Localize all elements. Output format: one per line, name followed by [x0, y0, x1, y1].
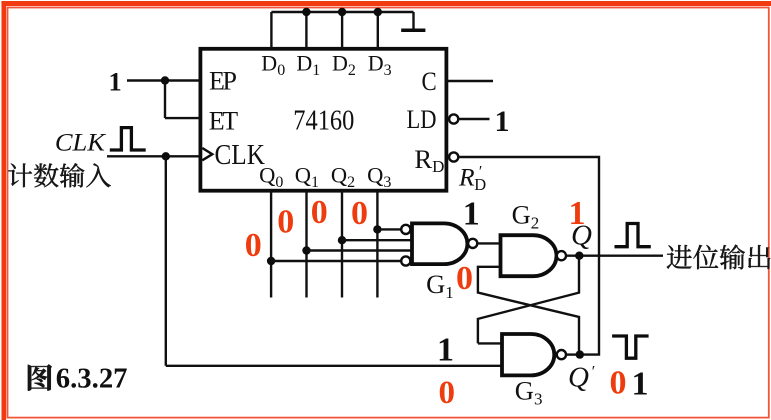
wire RD to Q' node	[459, 157, 600, 355]
junction Q node	[575, 252, 583, 260]
svg-text:0: 0	[245, 227, 262, 264]
svg-text:1: 1	[437, 332, 454, 369]
label 计数输入 (count input)	[8, 164, 32, 188]
junction Q2	[338, 236, 346, 244]
wire G3 out	[566, 353, 580, 355]
wire Q0 to G1	[271, 260, 401, 262]
junction D1	[302, 8, 310, 16]
junction Q3	[373, 225, 381, 233]
svg-text:1: 1	[495, 105, 510, 138]
svg-text:0: 0	[456, 260, 473, 297]
wire LD	[459, 118, 490, 120]
svg-text:0: 0	[351, 195, 368, 232]
wire Q1	[305, 191, 307, 298]
74160 counter U1	[200, 49, 446, 191]
input bubble G1 bottom	[401, 256, 410, 265]
svg-text:′: ′	[592, 363, 596, 380]
NAND gate G1	[412, 223, 467, 264]
svg-text:CLK: CLK	[215, 139, 265, 171]
wire 1 to EP	[127, 79, 200, 81]
label 进位输出 (carry output)	[667, 245, 692, 269]
svg-text:EP: EP	[209, 67, 237, 96]
negative pulse symbol at Q'	[612, 336, 649, 358]
bubble RD	[449, 152, 458, 161]
junction Q0	[267, 257, 275, 265]
wire Q3	[376, 191, 378, 298]
wire D bus	[271, 11, 413, 13]
junction Q' node	[576, 350, 584, 358]
wire D1	[305, 12, 307, 49]
input bubble G1 top	[401, 225, 410, 234]
svg-text:D: D	[474, 175, 486, 194]
bubble LD	[449, 114, 458, 123]
svg-text:0: 0	[610, 365, 627, 402]
wire G2 input cross-couple to Q'	[478, 267, 579, 355]
svg-text:1: 1	[463, 196, 480, 233]
svg-text:Q: Q	[571, 219, 592, 251]
svg-text:6.3.27: 6.3.27	[56, 363, 128, 395]
svg-text:ET: ET	[209, 106, 239, 135]
wire Q3 to G1	[377, 228, 401, 230]
CLK pulse symbol	[110, 128, 146, 150]
wire C output	[446, 80, 493, 82]
junction EP/ET	[161, 76, 169, 84]
output bubble G1	[468, 239, 477, 248]
wire D2	[341, 12, 343, 49]
svg-text:CLK: CLK	[55, 127, 107, 156]
wire Q output	[566, 254, 663, 256]
figure label 图6.3.27	[28, 364, 52, 390]
NAND gate G3	[502, 334, 554, 375]
svg-text:0: 0	[277, 204, 294, 241]
svg-text:1: 1	[109, 67, 122, 97]
svg-text:Q: Q	[568, 362, 589, 394]
svg-text:R: R	[458, 163, 475, 192]
carry pulse symbol	[615, 224, 651, 247]
junction D3	[374, 8, 382, 16]
output bubble G3	[557, 350, 566, 359]
wire G1 to G2	[478, 242, 501, 244]
wire CLK node to G3 input	[166, 156, 502, 365]
wire D3	[377, 12, 379, 49]
wire Q0	[270, 191, 272, 298]
CLK edge-trigger triangle on U1	[202, 148, 212, 160]
wire Q2 to G1	[342, 239, 412, 241]
ground	[412, 12, 414, 29]
junction D2	[338, 8, 346, 16]
svg-text:LD: LD	[407, 104, 437, 134]
svg-text:0: 0	[439, 375, 456, 411]
svg-text:C: C	[422, 66, 437, 96]
wire D0	[270, 12, 272, 49]
wire to ET	[165, 81, 200, 119]
svg-text:1: 1	[632, 366, 649, 403]
junction CLK node	[162, 152, 170, 160]
wire Q cross-couple to G3 input	[478, 256, 579, 344]
NAND gate G2	[501, 235, 557, 276]
output bubble G2	[557, 251, 566, 260]
wire Q1 to G1	[307, 249, 413, 251]
wire CLK	[107, 155, 200, 157]
svg-text:74160: 74160	[293, 105, 354, 136]
svg-text:0: 0	[311, 194, 328, 231]
junction Q1	[302, 246, 310, 254]
wire Q2	[341, 191, 343, 298]
